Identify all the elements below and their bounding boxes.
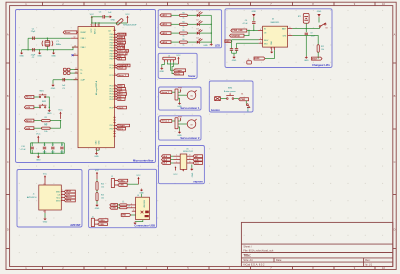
pin U5 right WP (187, 155, 193, 157)
pin 13 XTAL2 (72, 46, 78, 48)
junction C4 IN (253, 30, 254, 31)
svg-text:C8: C8 (61, 144, 63, 146)
svg-text:Servo_1: Servo_1 (162, 92, 171, 94)
svg-text:Sheet: /: Sheet: / (243, 246, 252, 249)
svg-text:MISO: MISO (56, 191, 61, 193)
global label INT2 (117, 93, 127, 96)
wire C9 to GND (305, 36, 307, 56)
connector J8 body (175, 118, 178, 129)
svg-text:1: 1 (62, 193, 63, 195)
wire C4 to IN net (253, 24, 255, 30)
global label WP (193, 155, 203, 158)
power VCC decoupling (36, 134, 41, 143)
global label PWR_USB (231, 29, 247, 32)
junction C10 bottom (32, 153, 33, 154)
resistor R8 1k (120, 204, 127, 206)
crystal Y1 8MHz (42, 38, 53, 50)
sheet box eeprom (159, 146, 205, 184)
pin PB MOSI (114, 39, 117, 41)
junction R1 rail (60, 120, 61, 121)
wire R2 to VCC rail (50, 127, 60, 129)
capacitor C10 4.7uF (31, 147, 34, 149)
pin PB AL2 (114, 57, 117, 59)
svg-text:GND: GND (177, 135, 182, 137)
pin J1 MOSI (61, 199, 64, 201)
global label sclk ISP (64, 193, 75, 196)
power arrow servo 1 (180, 89, 182, 92)
wire gnd right down (318, 17, 320, 22)
svg-text:100n: 100n (51, 152, 55, 154)
global label Servo_3 (117, 52, 128, 55)
svg-text:24: 24 (114, 84, 116, 86)
eeprom U5 body (180, 154, 187, 169)
global label Servo_1 (117, 74, 129, 77)
global label sclk at R2 (24, 127, 34, 130)
sheet box Microcontrolleur (16, 10, 156, 163)
svg-text:LED4: LED4 (162, 41, 168, 44)
svg-text:bouton: bouton (211, 108, 220, 112)
shield pad J3 upper (145, 211, 149, 214)
svg-text:eeprom: eeprom (193, 180, 203, 184)
wire pwr (178, 91, 181, 93)
wire eeprom left (171, 162, 174, 164)
svg-text:VCC: VCC (43, 173, 48, 175)
svg-text:Servo_1: Servo_1 (118, 75, 127, 77)
svg-text:R12: R12 (321, 46, 324, 48)
pin J1 sclk (61, 193, 64, 195)
pin J1 MISO (61, 190, 64, 192)
wire R6 to D4 (187, 41, 196, 43)
wire pwr (178, 120, 181, 122)
global label AL2 (117, 57, 126, 60)
capacitor C2 22pF (33, 48, 35, 51)
svg-text:VCC: VCC (95, 170, 100, 172)
svg-text:1k: 1k (122, 201, 124, 203)
svg-text:1: 1 (62, 199, 63, 201)
junction (98, 22, 99, 23)
pin 3 GND (98, 148, 100, 151)
global label Reset ISP (64, 196, 75, 199)
svg-text:KiCad E.D.A. 8.0.2: KiCad E.D.A. 8.0.2 (243, 264, 265, 267)
pin 29 RESET (76, 31, 78, 33)
global label IO6 (117, 98, 126, 101)
svg-text:3: 3 (131, 206, 132, 208)
pin J6-2 (166, 60, 168, 62)
ground charger caps (232, 56, 237, 62)
ground AVR ISP (43, 218, 48, 224)
global label Servo_2 (160, 120, 172, 123)
wire R13 to GND (96, 201, 98, 204)
pin J6-3 (169, 60, 171, 62)
svg-text:C: C (394, 160, 396, 164)
resonator Y2 MHQ628 (116, 18, 124, 25)
sheet box bouton (209, 81, 253, 112)
svg-text:21: 21 (114, 57, 116, 59)
svg-text:5: 5 (260, 42, 261, 44)
plug symbol bouton (246, 104, 250, 108)
LED D4 (197, 38, 203, 43)
junction left (27, 49, 28, 50)
wire to C6 (44, 143, 46, 146)
global label STAT (312, 57, 323, 60)
global label LED1 (160, 14, 171, 17)
resistor R6 1k (179, 41, 187, 43)
svg-text:Button power: Button power (224, 90, 236, 93)
global label USB- J3 (110, 206, 118, 209)
charger U3 MAX1811 body (263, 26, 288, 47)
svg-text:PWR_USB: PWR_USB (233, 30, 244, 32)
global label Echo sonar (174, 72, 184, 75)
svg-text:D2: D2 (196, 20, 198, 22)
ground below SW1 SW2 (47, 109, 52, 115)
pin U3 GND (270, 47, 272, 50)
junction LED rail row 3 (211, 32, 212, 33)
title block row lines (241, 244, 392, 266)
svg-text:1k: 1k (183, 45, 185, 47)
svg-text:Id: 1/1: Id: 1/1 (365, 264, 373, 267)
svg-text:PD0: PD0 (110, 86, 113, 88)
svg-text:23: 23 (114, 66, 116, 68)
svg-text:Reset: Reset (65, 31, 71, 34)
svg-text:29: 29 (114, 98, 116, 100)
pin AREF (73, 54, 79, 56)
svg-text:21: 21 (97, 24, 99, 26)
pin stub y131.2 (114, 130, 116, 132)
svg-text:C9: C9 (310, 32, 312, 34)
wire J1 to GND (44, 213, 46, 218)
junction LED rail row 2 (211, 24, 212, 25)
pin U5 right data (187, 162, 193, 164)
wire to VCC right (116, 22, 128, 24)
wire Servo_1 to J7 (172, 91, 175, 93)
ground below crystal mid (37, 52, 42, 58)
global label AL5 (162, 158, 171, 161)
pin PC CHARGER (114, 64, 117, 66)
svg-text:VOLT: VOLT (118, 68, 124, 70)
global label IO2 (117, 55, 126, 58)
connector J5 mark (247, 59, 252, 64)
svg-text:7: 7 (90, 24, 91, 26)
wire C6 to rail (44, 150, 46, 153)
svg-text:GND: GND (252, 11, 257, 13)
wire LED4 to R6 (171, 41, 179, 43)
svg-text:1: 1 (176, 155, 177, 157)
global label Reset at R1 (24, 119, 34, 122)
motor M1 (187, 90, 196, 99)
sheet box Chargeur LiPo (225, 9, 332, 68)
pin stub y117.3 (114, 116, 116, 118)
pin 19 (75, 68, 79, 70)
connector J6 body (163, 57, 176, 60)
svg-text:10k: 10k (101, 197, 104, 199)
svg-text:4: 4 (260, 29, 261, 31)
wire D1 to GND rail (200, 14, 212, 16)
svg-text:GND: GND (232, 60, 237, 62)
svg-text:100n: 100n (43, 152, 47, 154)
pin J4-1 (95, 219, 98, 221)
svg-text:Reset: Reset (26, 119, 32, 122)
wire servo gnd (178, 127, 180, 131)
wire SW4 to PWR (234, 98, 239, 100)
global label Trigger sonar (174, 69, 186, 72)
svg-text:20: 20 (93, 24, 95, 26)
svg-text:4: 4 (133, 210, 134, 212)
svg-text:42: 42 (74, 54, 76, 56)
svg-text:C7: C7 (52, 144, 54, 146)
svg-text:Servo_2: Servo_2 (162, 121, 171, 123)
pin PD INT1 (114, 90, 117, 92)
svg-text:8MHz: 8MHz (56, 44, 61, 46)
resistor R5 1k (179, 32, 187, 34)
svg-text:VCC: VCC (136, 175, 141, 177)
capacitor C9 2.2uF (305, 33, 308, 35)
sheet box Servo-moteur 2 (159, 116, 201, 140)
ground decoupling (36, 155, 41, 161)
power VCC sonar (176, 55, 181, 64)
global label USB+ J4 (98, 219, 108, 222)
svg-text:1: 1 (62, 196, 63, 198)
svg-text:AVCC: AVCC (94, 28, 97, 34)
ground sonar (160, 67, 165, 73)
pin PD IO5 (114, 95, 117, 97)
svg-text:13: 13 (74, 46, 76, 48)
power arrow eeprom VCC (175, 166, 177, 170)
global label sclk at SW2 (24, 106, 34, 109)
svg-text:1k: 1k (183, 36, 185, 38)
no-connect X at AREF (72, 54, 74, 56)
wire sclk to SW2 (34, 106, 39, 108)
svg-text:PB0: PB0 (110, 34, 113, 36)
svg-text:Echo: Echo (175, 73, 181, 75)
svg-text:R3: R3 (182, 12, 184, 14)
global label MISO ISP (64, 190, 75, 193)
wire to GND mid (39, 50, 41, 52)
svg-text:1.3k: 1.3k (321, 49, 324, 51)
svg-text:clock: clock (118, 107, 124, 109)
pin U5 GND (182, 169, 184, 172)
pin 21 (97, 23, 99, 27)
junction GND drop (38, 153, 39, 154)
switch B3 (319, 23, 326, 27)
junction C8 bottom (61, 153, 62, 154)
svg-text:GND: GND (19, 56, 24, 58)
junction C6 bottom (44, 153, 45, 154)
svg-text:GND: GND (160, 71, 165, 73)
battery BT1 plates (304, 17, 308, 21)
pin PB CHG_LED (114, 49, 117, 51)
wire aCAP net (53, 79, 78, 81)
svg-text:B3: B3 (325, 28, 327, 30)
ground below C9 (304, 56, 309, 62)
capacitor C3 1uF (63, 78, 65, 81)
svg-text:USB-: USB- (112, 208, 117, 210)
svg-text:Rese: Rese (56, 197, 60, 199)
svg-text:U3: U3 (272, 18, 274, 20)
global label USB- J2 (118, 184, 128, 187)
svg-text:USB-: USB- (119, 185, 124, 187)
wire SELV left (232, 39, 259, 41)
pin PB CS_RF (114, 46, 117, 48)
wire to resonator (115, 23, 118, 25)
svg-text:7: 7 (273, 48, 274, 50)
global label IO5 (117, 95, 126, 98)
pin aCAP (74, 78, 79, 80)
svg-text:Echo: Echo (118, 128, 124, 130)
power VCC pullups (58, 110, 63, 119)
microcontroller U2 ATmega328 body (78, 27, 114, 148)
wire GND to C4 (253, 17, 255, 20)
svg-text:LED2: LED2 (162, 24, 168, 26)
junction (95, 22, 96, 23)
svg-text:1: 1 (176, 158, 177, 160)
shield pad J3 lower (145, 215, 149, 217)
pin J1 GND (43, 210, 45, 213)
svg-text:4: 4 (182, 170, 183, 172)
svg-text:PB1: PB1 (110, 37, 113, 39)
wire L1 to U2 pin 2 (70, 72, 78, 74)
ground below U2 (94, 152, 99, 158)
svg-text:1k: 1k (183, 27, 185, 29)
connector J1 AVR-ISP-6 body (39, 185, 62, 210)
wire D2 to GND rail (200, 23, 212, 25)
svg-text:VCC: VCC (91, 28, 93, 33)
global label MOSI (117, 39, 126, 42)
svg-text:D1: D1 (196, 11, 198, 13)
ground eeprom (190, 168, 193, 171)
global label PWR (239, 98, 249, 101)
svg-text:GND: GND (203, 45, 208, 47)
wire D3 to GND rail (200, 32, 212, 34)
svg-text:17: 17 (114, 46, 116, 48)
global label USB- J4 (98, 223, 108, 226)
svg-text:6: 6 (114, 135, 115, 137)
wire SW1 to GND rail (46, 97, 49, 109)
global label Reset at U2 (63, 31, 77, 34)
svg-text:PC2: PC2 (110, 75, 113, 77)
capacitor C13 (235, 49, 238, 51)
global label ALIM (254, 57, 265, 60)
svg-text:29: 29 (76, 31, 78, 33)
wire eeprom left (171, 155, 174, 157)
svg-text:VCC: VCC (173, 174, 178, 176)
svg-text:Servo-moteur 1: Servo-moteur 1 (180, 106, 200, 110)
junction C10 top (32, 142, 33, 143)
global label TXD (117, 88, 126, 91)
pin J3 ID (132, 210, 136, 212)
svg-text:Chargeur LiPo: Chargeur LiPo (312, 63, 330, 67)
wire R1 to VCC rail (50, 121, 60, 129)
pin 5 GND (95, 148, 97, 152)
global label Echo (117, 127, 126, 130)
svg-text:4.7uF: 4.7uF (242, 23, 248, 25)
svg-text:18: 18 (114, 49, 116, 51)
wire to VCC USB mid (127, 183, 138, 185)
junction LED rail row 4 (211, 41, 212, 42)
wire USB+ to R8 (117, 204, 119, 206)
pin J2-1 (115, 180, 118, 182)
push button SW1 (39, 94, 47, 98)
wire to motor (178, 94, 187, 96)
sheet box Connecteur USB (89, 169, 157, 227)
svg-text:B: B (394, 94, 396, 98)
wire B2 to SW4 (221, 98, 227, 100)
junction C8 top (61, 142, 62, 143)
global label BUZZER (117, 33, 127, 36)
ferrite bead L1 pads (63, 68, 70, 74)
svg-text:A: A (394, 33, 396, 37)
svg-text:19: 19 (75, 68, 77, 70)
power VCC left of U2 top (90, 14, 95, 23)
wire R3 to D1 (187, 14, 196, 16)
svg-text:2: 2 (115, 124, 116, 126)
wire R10 to R13 (96, 190, 98, 192)
wire R5 to D3 (187, 32, 196, 34)
resistor R10 1.5k (96, 182, 98, 191)
connector B2 body (215, 97, 221, 101)
pin stub top (114, 29, 116, 31)
pin Echo (114, 127, 117, 129)
svg-text:MAX1811: MAX1811 (271, 21, 281, 24)
global label INT1 (117, 90, 127, 93)
svg-text:1: 1 (62, 190, 63, 192)
push button SW2 (39, 104, 47, 108)
pin stub y133.6 (114, 132, 116, 134)
LED D3 (197, 29, 203, 34)
svg-text:Rev:: Rev: (365, 259, 370, 262)
wire to C7 (52, 143, 54, 146)
svg-text:R10: R10 (101, 183, 104, 185)
wire VCC to C5 (92, 16, 103, 18)
svg-text:File: 801h_robot.kicad_sch: File: 801h_robot.kicad_sch (243, 249, 273, 252)
svg-text:GND: GND (248, 107, 250, 112)
svg-text:8: 8 (189, 155, 190, 157)
svg-text:32: 32 (114, 106, 116, 108)
svg-text:STAT: STAT (312, 57, 318, 60)
wire to motor (178, 123, 187, 125)
wire R12 down (317, 52, 319, 58)
wire J6 to Trigger (170, 62, 173, 70)
svg-text:GND: GND (51, 88, 56, 90)
svg-text:1k: 1k (183, 18, 185, 20)
wire U2 GND join (97, 149, 100, 151)
wire decoupling bottom rail (31, 143, 65, 153)
global label LED3 (160, 32, 171, 35)
svg-text:VCC: VCC (90, 14, 95, 16)
ground below C3 (51, 84, 56, 90)
connector J3 USB-MINI body (136, 197, 150, 219)
ground R13 (95, 204, 100, 210)
svg-text:GND: GND (94, 156, 99, 158)
svg-text:VCC: VCC (58, 110, 63, 112)
svg-text:SELI: SELI (264, 43, 268, 45)
svg-text:R4: R4 (182, 21, 184, 23)
svg-text:100n: 100n (60, 152, 64, 154)
global label LED2 (160, 23, 171, 26)
svg-text:8: 8 (189, 158, 190, 160)
wire J6 to GND (162, 62, 165, 67)
ground top charger (252, 14, 255, 17)
svg-text:6: 6 (290, 27, 291, 29)
title block outline (241, 222, 392, 266)
ground J3 shield (133, 222, 136, 225)
resistor R12 1.3k (317, 45, 319, 52)
wire LED GND rail (210, 15, 212, 43)
svg-text:LED: LED (215, 44, 220, 48)
LED D2 (197, 21, 203, 26)
svg-text:PB1: PB1 (110, 58, 113, 60)
capacitor C12 (230, 49, 233, 51)
svg-text:22pF: 22pF (31, 31, 36, 33)
